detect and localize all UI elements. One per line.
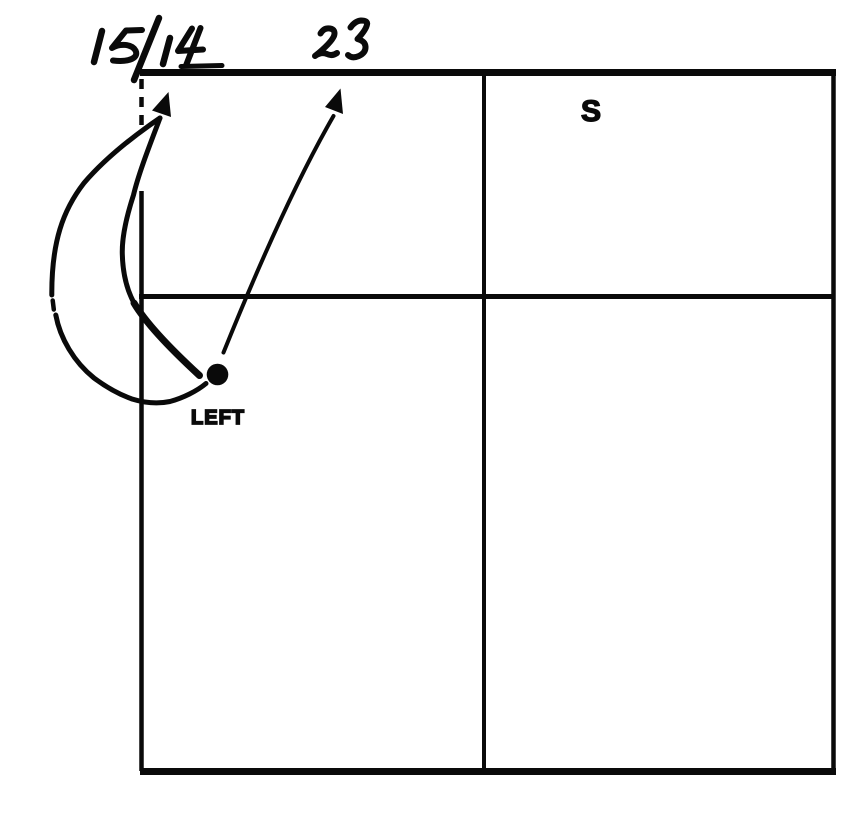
wire: right border bbox=[831, 69, 836, 773]
wire: inner curve from dot to 15/14 arrowhead bbox=[134, 303, 200, 376]
arrowhead at 15/14 bbox=[152, 92, 171, 117]
svg-text:LEFT: LEFT bbox=[191, 407, 244, 429]
arrowhead at 23 bbox=[325, 89, 343, 115]
wire: bottom border bbox=[140, 768, 836, 775]
wire: top border of screen box bbox=[140, 69, 836, 76]
wire: vertical divider bbox=[482, 76, 486, 774]
label 23 (handwritten) bbox=[315, 21, 367, 58]
wire: left border upper dashed segment bbox=[139, 79, 144, 126]
label 14 (handwritten) bbox=[163, 28, 222, 67]
wire: small dash of outer arc bbox=[53, 301, 54, 310]
label 15 (handwritten) bbox=[94, 30, 142, 62]
wire: straight arrow shaft to 23 bbox=[224, 116, 334, 353]
node LEFT: dot bbox=[207, 364, 229, 386]
wire: outer arc from 15/14 arrowhead sweeping left to dot bbox=[52, 118, 160, 295]
wire: horizontal divider bbox=[139, 294, 834, 299]
label slash of 15/14 bbox=[134, 18, 159, 80]
svg-text:S: S bbox=[581, 95, 601, 128]
wire: left border lower segment bbox=[139, 191, 144, 771]
